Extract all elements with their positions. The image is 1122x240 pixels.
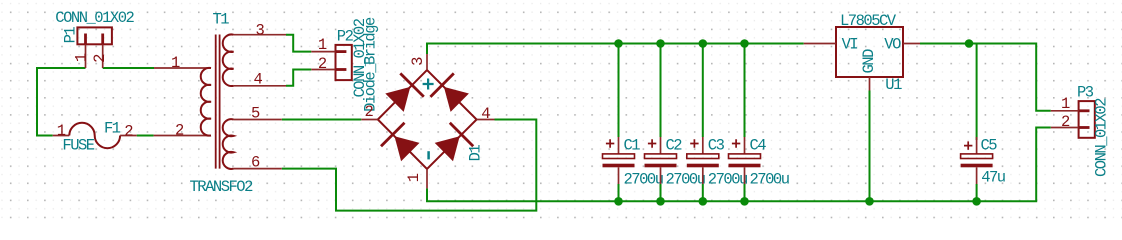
diode R-to-T <box>444 87 469 112</box>
pin D1.4 <box>477 119 495 121</box>
connector P2 <box>311 45 352 80</box>
capacitor C3 <box>687 137 719 184</box>
wire P1.1 to fuse <box>37 68 86 136</box>
svg-text:CONN_01X02: CONN_01X02 <box>1092 98 1110 177</box>
pin D1.3 <box>426 54 428 70</box>
svg-text:P1: P1 <box>61 27 79 44</box>
wire bottom bus D1.1 to P3.2 <box>427 128 1051 202</box>
svg-text:1: 1 <box>405 173 423 182</box>
wire C1 bottom <box>618 184 620 201</box>
svg-text:GND: GND <box>860 49 878 74</box>
svg-text:1: 1 <box>57 122 66 140</box>
capacitor C4 <box>729 137 761 184</box>
wire C3 top <box>702 44 704 138</box>
junction top C5 <box>965 39 974 48</box>
svg-text:C5: C5 <box>981 136 998 154</box>
wire C2 top <box>660 44 662 138</box>
junction bottom C1 <box>614 197 623 206</box>
svg-text:4: 4 <box>481 105 490 123</box>
edges <box>378 70 477 169</box>
svg-text:2: 2 <box>91 54 109 63</box>
svg-text:C1: C1 <box>624 136 641 154</box>
svg-text:C2: C2 <box>666 136 683 154</box>
svg-text:2700u: 2700u <box>750 171 789 189</box>
diode L-to-T <box>385 87 410 112</box>
svg-text:T1: T1 <box>213 11 230 29</box>
svg-text:2700u: 2700u <box>708 171 747 189</box>
fuse F1 <box>53 123 137 148</box>
junction bottom GND <box>865 197 874 206</box>
pin D1.1 <box>426 169 428 189</box>
svg-text:Diode_Bridge: Diode_Bridge <box>361 17 379 112</box>
svg-text:4: 4 <box>254 71 263 89</box>
svg-text:6: 6 <box>251 153 260 171</box>
wire T1.6 to D1.4 <box>282 120 537 211</box>
junction top C3 <box>699 39 708 48</box>
capacitor C1 <box>603 137 635 184</box>
diode bridge D1 <box>361 54 494 188</box>
wire C1 top <box>618 44 620 138</box>
wire C5 bottom <box>976 184 978 201</box>
junction bottom C5 <box>972 197 981 206</box>
wire C4 top <box>744 44 746 138</box>
svg-text:D1: D1 <box>466 145 484 162</box>
plus mark of bridge <box>423 79 434 90</box>
svg-text:2: 2 <box>365 103 374 121</box>
primary coil <box>201 68 211 136</box>
svg-text:1: 1 <box>171 54 180 72</box>
pin D1.2 <box>361 119 378 121</box>
diode B-to-L <box>395 136 420 161</box>
junction top C1 <box>614 39 623 48</box>
diode B-to-R <box>435 136 460 161</box>
svg-text:2700u: 2700u <box>624 171 663 189</box>
svg-text:47u: 47u <box>981 169 1005 187</box>
svg-text:F1: F1 <box>104 120 121 138</box>
junction top C2 <box>656 39 665 48</box>
junction bottom C4 <box>740 197 749 206</box>
connector P1 <box>77 27 112 68</box>
wire C2 bottom <box>660 184 662 201</box>
wire C4 bottom <box>744 184 746 201</box>
secondary coil bottom <box>223 119 234 169</box>
svg-text:P3: P3 <box>1077 84 1094 102</box>
svg-text:2: 2 <box>175 122 184 140</box>
minus mark of bridge <box>427 151 430 159</box>
capacitor C2 <box>645 137 677 184</box>
junction bottom C2 <box>656 197 665 206</box>
svg-text:2: 2 <box>318 55 327 73</box>
wire D1.3 to top bus <box>427 44 804 55</box>
connector P3 <box>1051 101 1095 138</box>
wire U1 GND down <box>869 91 871 202</box>
svg-text:5: 5 <box>251 105 260 123</box>
svg-text:U1: U1 <box>885 76 902 94</box>
svg-text:3: 3 <box>256 21 265 39</box>
transformer T1 <box>154 34 286 168</box>
svg-text:VO: VO <box>884 35 901 53</box>
junction top C4 <box>740 39 749 48</box>
svg-text:2: 2 <box>1061 113 1070 131</box>
svg-text:1: 1 <box>1061 95 1070 113</box>
wire C3 bottom <box>702 184 704 201</box>
secondary coil top <box>223 34 234 86</box>
svg-text:TRANSFO2: TRANSFO2 <box>190 178 254 196</box>
svg-text:3: 3 <box>409 57 427 66</box>
svg-text:FUSE: FUSE <box>62 136 94 154</box>
svg-text:CONN_01X02: CONN_01X02 <box>55 9 134 27</box>
wire T1.4 to P2.2 <box>286 70 311 86</box>
svg-text:C3: C3 <box>708 136 725 154</box>
svg-text:VI: VI <box>842 35 858 53</box>
svg-text:C4: C4 <box>750 136 767 154</box>
wire C5 top <box>976 44 978 141</box>
regulator U1 <box>804 27 920 91</box>
svg-text:L7805CV: L7805CV <box>840 12 897 30</box>
wire VO to P3.1 <box>920 44 1051 111</box>
core <box>215 35 217 169</box>
svg-text:1: 1 <box>73 53 91 62</box>
capacitor C5 <box>961 137 993 184</box>
junction bottom C3 <box>699 197 708 206</box>
wire P1.2 to T1.1 <box>103 67 154 69</box>
svg-text:1: 1 <box>318 36 327 54</box>
svg-text:2700u: 2700u <box>666 171 705 189</box>
wire T1.5 to D1.2 <box>282 119 362 121</box>
svg-text:2: 2 <box>124 123 133 141</box>
wire fuse to T1.2 <box>137 135 154 137</box>
wire T1.3 to P2.1 <box>286 35 311 52</box>
